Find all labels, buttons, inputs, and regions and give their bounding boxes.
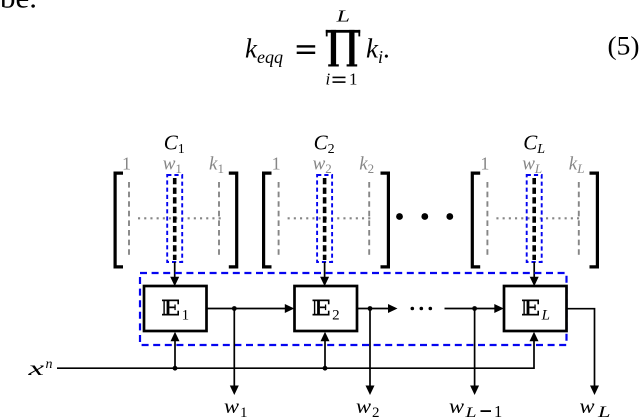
matrix C2 gray column line 3 xyxy=(368,182,370,257)
junction node on E2 output wire xyxy=(368,306,373,311)
svg-text:1: 1 xyxy=(122,154,131,174)
matrix C1 blue selection box xyxy=(167,175,182,262)
encoder label EL xyxy=(522,300,539,316)
matrix C2 right bracket xyxy=(381,172,391,269)
svg-text:L: L xyxy=(597,404,611,420)
svg-text:k1: k1 xyxy=(209,154,224,177)
wire EL output to wL xyxy=(567,309,595,386)
matrix CL left bracket xyxy=(471,172,481,269)
matrix C2 gray column line 1 xyxy=(278,182,280,257)
input wire x^n xyxy=(57,341,534,368)
svg-text:L: L xyxy=(335,7,350,26)
wire E1 to E2 xyxy=(207,308,286,310)
svg-text:ki.: ki. xyxy=(366,34,390,68)
svg-text:1: 1 xyxy=(494,402,502,420)
blue dashed enclosure around encoders xyxy=(140,273,567,345)
svg-text:kL: kL xyxy=(569,154,585,177)
arrow from matrix CL to encoder xyxy=(533,262,535,279)
junction node feeding E1 xyxy=(173,366,178,371)
matrix C2 selected column (black dashed) xyxy=(323,178,327,260)
matrix C2 dotted row xyxy=(288,217,372,219)
wire down to w1 xyxy=(233,309,235,386)
svg-text:w: w xyxy=(356,394,371,418)
ellipsis dots between matrices xyxy=(396,213,403,220)
matrix CL right bracket xyxy=(590,172,600,269)
matrix C1 right bracket xyxy=(229,172,239,269)
svg-text:1: 1 xyxy=(272,154,281,174)
wire down to wL-1 xyxy=(474,309,476,386)
svg-text:be.: be. xyxy=(0,0,37,15)
matrix C1 dotted row xyxy=(138,217,221,219)
matrix CL selected column (black dashed) xyxy=(532,178,536,260)
svg-text:w: w xyxy=(224,394,239,418)
svg-text:n: n xyxy=(46,357,53,372)
arrowhead up into EL xyxy=(530,332,539,342)
encoder box E2 xyxy=(295,286,358,331)
junction node on E1-E2 wire xyxy=(232,306,237,311)
wire down to w2 xyxy=(369,309,371,386)
encoder label E1 xyxy=(162,300,179,316)
wire E2 toward dots xyxy=(356,308,389,310)
matrix CL gray column line 1 xyxy=(486,182,488,257)
arrow from matrix C2 to encoder xyxy=(324,262,326,279)
svg-text:1: 1 xyxy=(182,308,190,324)
arrow from matrix C1 to encoder xyxy=(174,262,176,279)
equation equals sign xyxy=(297,45,316,47)
svg-text:k2: k2 xyxy=(359,154,374,177)
svg-text:1: 1 xyxy=(480,154,489,174)
svg-text:2: 2 xyxy=(332,308,340,324)
matrix C1 gray column line 1 xyxy=(128,182,130,257)
svg-text:i: i xyxy=(326,70,331,89)
svg-text:2: 2 xyxy=(372,405,380,420)
svg-text:1: 1 xyxy=(349,70,358,89)
matrix C2 left bracket xyxy=(262,172,272,269)
matrix CL gray column line 3 xyxy=(578,182,580,257)
svg-text:x: x xyxy=(27,356,45,380)
svg-text:L: L xyxy=(464,405,476,420)
matrix CL dotted row xyxy=(496,217,580,219)
wire up into E1 xyxy=(174,339,176,368)
wire dots to EL xyxy=(445,308,496,310)
encoder box EL xyxy=(504,286,567,331)
svg-text:w: w xyxy=(449,394,464,418)
matrix CL blue selection box xyxy=(527,175,542,262)
matrix C1 gray column line 3 xyxy=(218,182,220,257)
matrix C1 selected column (black dashed) xyxy=(173,178,177,260)
wire up into E2 xyxy=(324,339,326,368)
svg-text:w: w xyxy=(580,394,595,418)
junction node feeding E2 xyxy=(323,366,328,371)
junction node on wire into EL xyxy=(472,306,477,311)
encoder box E1 xyxy=(144,286,207,331)
svg-text:keqq: keqq xyxy=(245,34,283,68)
matrix C1 left bracket xyxy=(114,172,124,269)
encoder label E2 xyxy=(313,300,330,316)
svg-text:(5): (5) xyxy=(608,32,640,61)
svg-text:L: L xyxy=(541,308,550,324)
product symbol xyxy=(326,30,360,67)
svg-text:1: 1 xyxy=(240,405,248,420)
ellipsis dots between E2 and EL xyxy=(411,307,415,311)
matrix C2 blue selection box xyxy=(317,175,332,262)
